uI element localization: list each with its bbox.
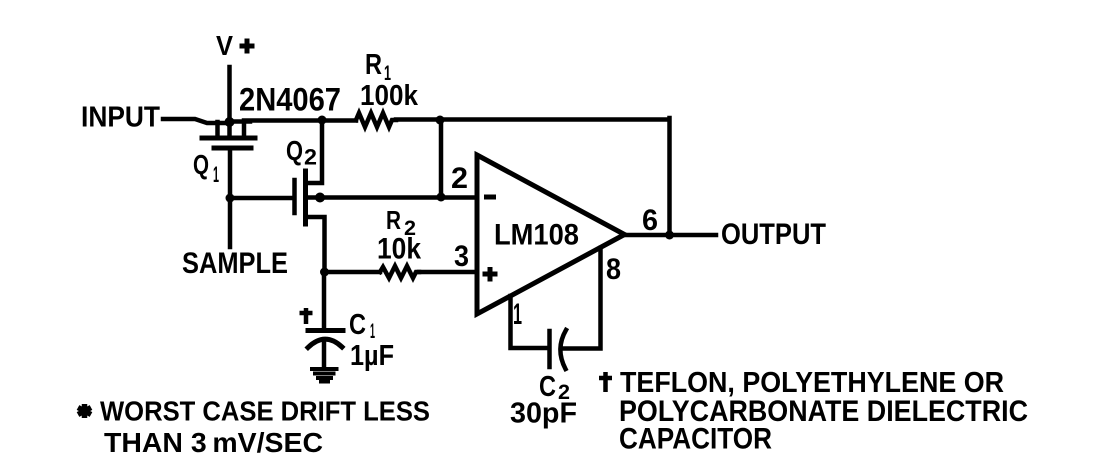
resistor R2 — [380, 266, 419, 278]
svg-text:V: V — [216, 30, 233, 61]
label Q1 — [193, 149, 219, 187]
wire INPUT lead — [163, 119, 230, 123]
dagger note marker — [599, 372, 612, 392]
svg-text:R: R — [386, 205, 401, 235]
dagger at C1 — [300, 308, 313, 324]
svg-text:1µF: 1µF — [350, 340, 394, 372]
wire node to R2 — [325, 270, 381, 275]
wire top rail right (R1 to feedback corner) — [396, 117, 668, 122]
svg-text:1: 1 — [513, 298, 522, 331]
wire Q1 gate lead down to SAMPLE — [228, 148, 233, 247]
wire node down to C1 — [322, 272, 327, 330]
transistor Q1 — [202, 122, 255, 148]
svg-text:2: 2 — [451, 162, 468, 195]
wire pin 8 lead — [561, 248, 601, 349]
svg-text:CAPACITOR: CAPACITOR — [619, 423, 772, 456]
op-amp plus sign — [483, 267, 498, 282]
label R1 — [365, 49, 391, 85]
svg-text:3: 3 — [454, 240, 469, 273]
label C2 — [539, 371, 570, 404]
svg-text:2N4067: 2N4067 — [239, 82, 341, 118]
svg-text:Q: Q — [193, 149, 209, 180]
wire C1 to ground — [322, 342, 327, 367]
capacitor C2 — [550, 330, 567, 369]
wire R1 right junction down to pin 2 line — [439, 120, 444, 197]
capacitor C1 — [308, 331, 343, 348]
wire Q2 substrate to op-amp pin 2 — [306, 195, 478, 200]
op-amp minus sign — [484, 195, 496, 200]
transistor Q2 — [295, 121, 325, 272]
wire top rail left (Q1 drain to R1) — [229, 121, 356, 122]
node junction dots — [225, 116, 675, 277]
wire feedback from top rail to output — [667, 118, 672, 235]
svg-text:1: 1 — [213, 162, 219, 187]
svg-text:100k: 100k — [360, 80, 419, 112]
svg-text:30pF: 30pF — [510, 398, 577, 430]
svg-text:SAMPLE: SAMPLE — [182, 247, 288, 280]
label R2 — [386, 205, 416, 240]
asterisk note marker — [78, 404, 91, 418]
wire SAMPLE branch to Q2 gate — [230, 196, 292, 201]
resistor R1 — [356, 113, 396, 127]
svg-text:WORST CASE DRIFT LESS: WORST CASE DRIFT LESS — [100, 396, 430, 427]
svg-text:C: C — [349, 309, 366, 341]
svg-text:2: 2 — [304, 145, 317, 170]
wire R2 to op-amp pin 3 — [419, 270, 477, 275]
label Q2 — [286, 135, 317, 170]
label C1 — [349, 309, 375, 343]
svg-text:OUTPUT: OUTPUT — [721, 218, 826, 251]
wire pin 1 lead — [511, 296, 549, 348]
svg-text:LM108: LM108 — [494, 219, 579, 252]
ground — [312, 369, 337, 382]
svg-text:8: 8 — [606, 253, 621, 286]
svg-text:THAN 3 mV/SEC: THAN 3 mV/SEC — [104, 427, 323, 457]
wire V+ lead into Q1 substrate — [227, 67, 232, 138]
wire output pin 6 — [624, 233, 716, 238]
label V+ — [216, 30, 255, 61]
svg-text:R: R — [365, 49, 382, 81]
op-amp U1 LM108 triangle — [477, 155, 625, 314]
svg-text:Q: Q — [286, 135, 303, 166]
svg-text:INPUT: INPUT — [81, 102, 160, 134]
svg-text:10k: 10k — [377, 233, 421, 266]
svg-text:6: 6 — [642, 204, 658, 237]
